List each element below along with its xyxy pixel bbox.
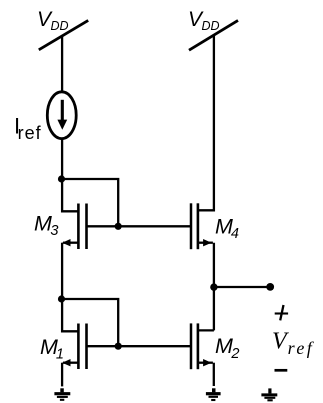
transistor M2: [191, 323, 213, 369]
wire M2 drain bend: [197, 329, 214, 331]
transistor M4: [191, 203, 213, 249]
ground M2: [206, 388, 221, 400]
wire VDD right to M4 drain: [197, 36, 214, 211]
label M3: [34, 211, 59, 238]
wire M2 source to ground: [213, 363, 215, 386]
label M1: [40, 335, 64, 362]
wire M4 source to M2 drain: [213, 243, 215, 331]
supply VDD left slash: [39, 20, 88, 49]
wire Vref output: [214, 286, 270, 288]
supply VDD right slash: [189, 20, 238, 50]
wire current source to node A: [61, 140, 63, 181]
wire M3 gate to M4 gate: [86, 225, 193, 227]
supply VDD left label: [37, 8, 69, 33]
label Vref: [272, 329, 315, 358]
current source Iref: [47, 92, 76, 139]
transistor M3: [62, 204, 86, 250]
label M2: [215, 334, 240, 362]
label plus: [275, 305, 288, 320]
node Vref junction dot: [210, 283, 217, 290]
node A junction dot: [58, 175, 65, 182]
wire node A to M3 drain: [62, 179, 79, 211]
junction dot gate node M3-M4: [115, 223, 122, 230]
label minus: [275, 369, 288, 372]
node B junction dot: [58, 295, 65, 302]
label Iref: [14, 114, 42, 143]
wire node A to M3 gate loop: [62, 179, 118, 226]
ground M1: [54, 388, 70, 400]
label M4: [215, 215, 239, 242]
junction dot gate node M1-M2: [115, 343, 122, 350]
wire node B to M1 gate loop: [62, 299, 118, 346]
wire M3 source to node B: [61, 243, 63, 300]
ground Vref reference: [261, 388, 277, 400]
supply VDD right label: [188, 8, 220, 33]
transistor M1: [62, 324, 86, 370]
wire M1 gate to M2 gate: [86, 345, 193, 347]
wire M1 source to ground: [61, 363, 63, 387]
wire VDD left to current source: [61, 36, 63, 91]
wire node B to M1 drain: [62, 299, 79, 331]
terminal dot Vref: [266, 283, 274, 291]
